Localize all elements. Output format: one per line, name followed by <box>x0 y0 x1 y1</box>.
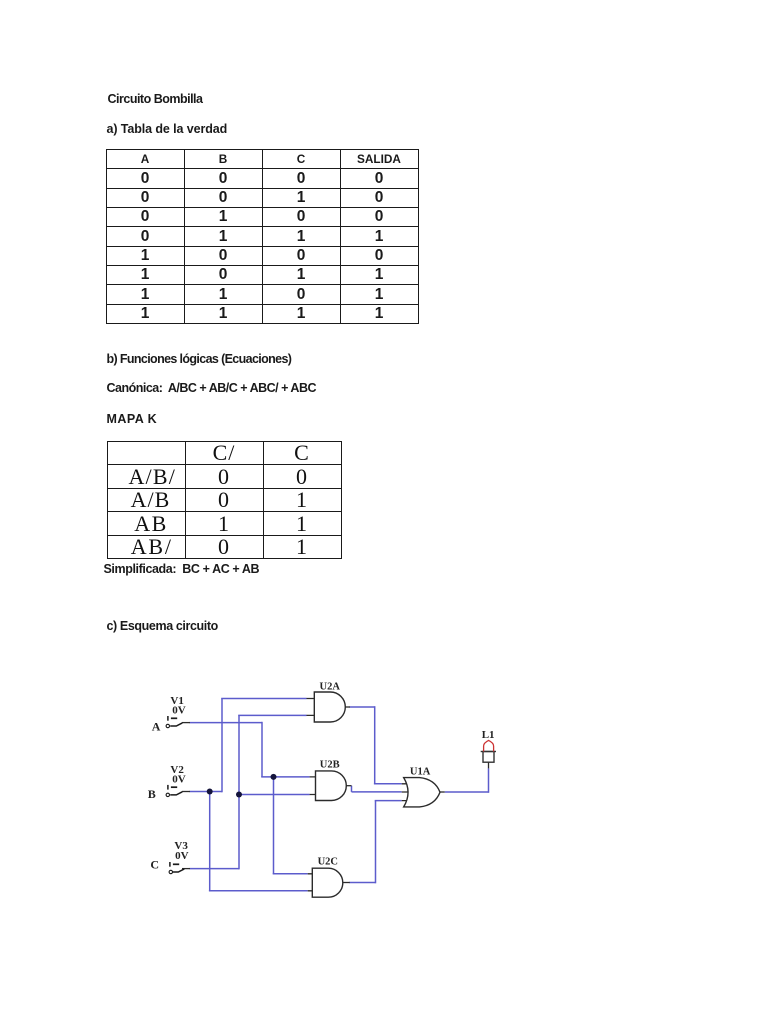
wire B branch vertical down <box>209 792 211 891</box>
wire U2A output run <box>350 706 375 708</box>
switch C blade <box>172 869 184 872</box>
pin stub B <box>182 791 190 793</box>
U1A output stub <box>440 791 445 793</box>
heading: Circuito Bombilla <box>108 93 203 106</box>
source V2 battery bar <box>171 786 177 788</box>
heading MAPA K <box>107 413 158 426</box>
wire U2A output vertical <box>374 706 376 784</box>
U2C output stub <box>343 882 350 884</box>
black pin stubs <box>182 699 489 891</box>
pin stub C <box>182 868 190 870</box>
and-gate U2A <box>314 692 345 722</box>
svg-text:U2B: U2B <box>320 759 340 770</box>
svg-text:0V: 0V <box>175 850 189 862</box>
heading a) <box>107 123 228 136</box>
wire U2B output step down <box>351 786 353 792</box>
wire B vertical up to U2A <box>221 699 223 793</box>
switch B blade <box>170 792 182 795</box>
source V3 battery bar <box>173 863 179 865</box>
svg-text:0V: 0V <box>172 705 186 717</box>
svg-text:L1: L1 <box>482 729 495 741</box>
U1A input stubs <box>402 784 410 801</box>
wire B horizontal <box>190 791 223 793</box>
simplified equation <box>104 563 260 576</box>
wire U2C output run <box>349 882 375 884</box>
U2B input stubs <box>310 777 316 795</box>
svg-text:C: C <box>150 858 159 872</box>
source V1 battery tick <box>167 716 169 721</box>
wire B to U2C bottom input <box>209 890 308 892</box>
terminal circle B <box>166 793 169 796</box>
wire A horizontal <box>190 722 263 724</box>
junction dot A net <box>271 774 277 780</box>
terminal circle C <box>169 870 172 873</box>
wire C vertical up to U2A <box>238 715 240 869</box>
source V3 battery tick <box>169 862 171 867</box>
terminal circle A <box>166 724 169 727</box>
wire A to U2B top input <box>261 776 309 778</box>
source V2 battery tick <box>167 785 169 790</box>
wire C to U2A bottom input <box>238 714 306 716</box>
lamp bottom stub <box>488 762 490 768</box>
U2C input stubs <box>308 874 313 891</box>
svg-text:U2C: U2C <box>318 857 338 868</box>
wire A net: horizontal from switch A <box>190 699 489 891</box>
wire C horizontal <box>190 868 240 870</box>
canonical equation <box>107 382 317 395</box>
wire B to U2A top input <box>221 698 306 700</box>
U2A output stub <box>345 706 350 708</box>
svg-text:U1A: U1A <box>410 766 431 777</box>
lamp L1 body box <box>483 752 494 763</box>
heading b) <box>107 353 292 366</box>
wire A branch vertical to U2C <box>273 777 275 874</box>
switch A blade <box>170 723 182 726</box>
truth table <box>106 149 419 325</box>
karnaugh map table <box>107 441 342 560</box>
svg-text:A: A <box>152 720 161 734</box>
and-gate U2C <box>312 868 343 897</box>
svg-text:U2A: U2A <box>320 681 341 692</box>
wire U2C output vertical up <box>375 801 377 884</box>
wire to U1A top input <box>374 783 402 785</box>
wire A vertical down <box>261 722 263 777</box>
U2B output stub <box>347 785 352 787</box>
and-gate U2B <box>316 771 347 801</box>
wire U1A output run <box>445 791 489 793</box>
svg-text:B: B <box>148 787 156 801</box>
U2A input stubs <box>307 699 315 716</box>
junction dot B net <box>207 789 213 795</box>
wire to U1A middle input <box>352 791 402 793</box>
wire A to U2C top input <box>273 873 308 875</box>
junction dot C net <box>236 792 242 798</box>
source V1 battery bar <box>171 717 177 719</box>
svg-text:0V: 0V <box>172 773 186 785</box>
lamp L1 top plate <box>481 751 496 753</box>
wire to U1A bottom input <box>375 800 402 802</box>
or-gate U1A <box>404 778 440 807</box>
pin stub A <box>182 722 190 724</box>
wire up to lamp <box>488 768 490 792</box>
wire C branch to U2B bottom input <box>239 794 310 796</box>
heading c) <box>107 620 218 633</box>
lamp L1 red bulb arch <box>484 740 494 751</box>
